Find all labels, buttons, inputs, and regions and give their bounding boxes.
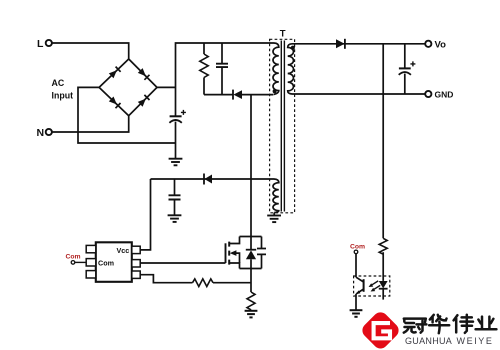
logo mark (red diamond with G): [359, 309, 401, 350]
opto phototransistor: [356, 277, 364, 294]
transformer T dashed box: [270, 39, 295, 213]
capacitor C-out (polarized): [399, 44, 416, 94]
resistor R-feedback: [379, 238, 387, 254]
node GND terminal: [425, 91, 431, 97]
node L terminal: [46, 40, 52, 46]
capacitor C-bulk (polarized): [169, 110, 186, 143]
wire L to bridge top: [52, 43, 129, 59]
bridge rectifier BR1: [99, 59, 157, 116]
wire feedback resistor to opto LED: [382, 252, 384, 281]
winding primary: [273, 43, 279, 94]
svg-text:Com: Com: [98, 259, 114, 268]
wire phototransistor emitter to ground: [355, 294, 357, 310]
wire drain vertical: [250, 95, 252, 237]
node Com terminal (left): [71, 261, 75, 265]
ground (source resistor): [245, 311, 258, 318]
svg-text:N: N: [37, 127, 45, 139]
opto light arrows: [369, 281, 381, 292]
wire source to sense junction: [250, 269, 252, 293]
svg-text:AC: AC: [52, 78, 65, 88]
wire sense resistor to source: [213, 282, 251, 284]
wire aux winding to ground: [273, 213, 275, 216]
svg-text:Vcc: Vcc: [117, 246, 130, 255]
svg-text:Com: Com: [350, 243, 365, 250]
ground (opto): [350, 310, 363, 317]
winding auxiliary: [273, 179, 279, 213]
logo Chinese characters 冠华伟业: [404, 315, 497, 333]
svg-text:GND: GND: [435, 90, 454, 100]
wire feedback from output node: [382, 44, 384, 239]
wire bridge left vertex to DC- return: [78, 87, 176, 143]
junction dot primary bottom: [273, 89, 277, 93]
wire bulk cap to ground: [175, 143, 177, 159]
capacitor C-vcc: [169, 179, 181, 215]
wire clamp diode to primary bottom: [242, 94, 273, 96]
wire aux rail: [151, 178, 275, 180]
diode D-out: [336, 39, 345, 49]
svg-text:GUANHUA: GUANHUA: [405, 336, 452, 346]
optocoupler U2 dashed box: [354, 276, 390, 296]
arrows on edges: TL up-right, TR down-right, BL down-right, BR up-right: [109, 70, 117, 78]
resistor R-snubber: [200, 43, 208, 95]
wire Com terminal to phototransistor: [355, 254, 357, 278]
ground (Vcc cap): [168, 215, 182, 222]
node Vo terminal: [425, 41, 431, 47]
svg-text:WEIYE: WEIYE: [457, 336, 494, 346]
wire IC sense pin to sense line: [140, 275, 192, 283]
diode D-clamp: [233, 90, 242, 100]
wire secondary top to Vo: [292, 43, 425, 45]
diode D-aux: [204, 174, 212, 185]
winding secondary: [288, 44, 294, 94]
ground (bulk cap): [169, 159, 183, 166]
diode D-body: [246, 237, 256, 269]
transformer core: [281, 41, 284, 212]
wire Vcc pin up to aux rail: [140, 179, 150, 250]
svg-text:Input: Input: [52, 91, 74, 101]
svg-text:Vo: Vo: [435, 40, 447, 51]
capacitor C-snubber: [216, 43, 228, 95]
svg-text:L: L: [37, 38, 44, 50]
wire Com terminal to IC pin: [75, 261, 86, 263]
svg-text:Com: Com: [66, 254, 81, 261]
resistor R-source: [247, 292, 255, 310]
wire to ground: [250, 309, 252, 312]
junction dot secondary top: [291, 46, 295, 50]
node Com terminal (opto): [354, 250, 358, 254]
node N terminal: [46, 129, 52, 135]
svg-text:T: T: [280, 29, 286, 40]
wire secondary bottom to GND: [292, 93, 425, 95]
wire N to bridge bottom: [52, 116, 129, 132]
resistor R-sense: [193, 279, 214, 287]
IC U1 controller: [86, 242, 140, 281]
opto LED D-led: [379, 281, 388, 300]
wire gate from IC to MOSFET: [140, 262, 225, 264]
wire bridge right vertex to DC+ rail: [157, 86, 176, 88]
wire DC+ rail vertical and top rail to transformer: [176, 43, 275, 116]
capacitor C-ds: [257, 237, 266, 269]
ground (aux winding): [267, 216, 281, 223]
transistor Q1 MOSFET: [226, 237, 262, 269]
wire snubber bottom rail: [204, 94, 233, 96]
